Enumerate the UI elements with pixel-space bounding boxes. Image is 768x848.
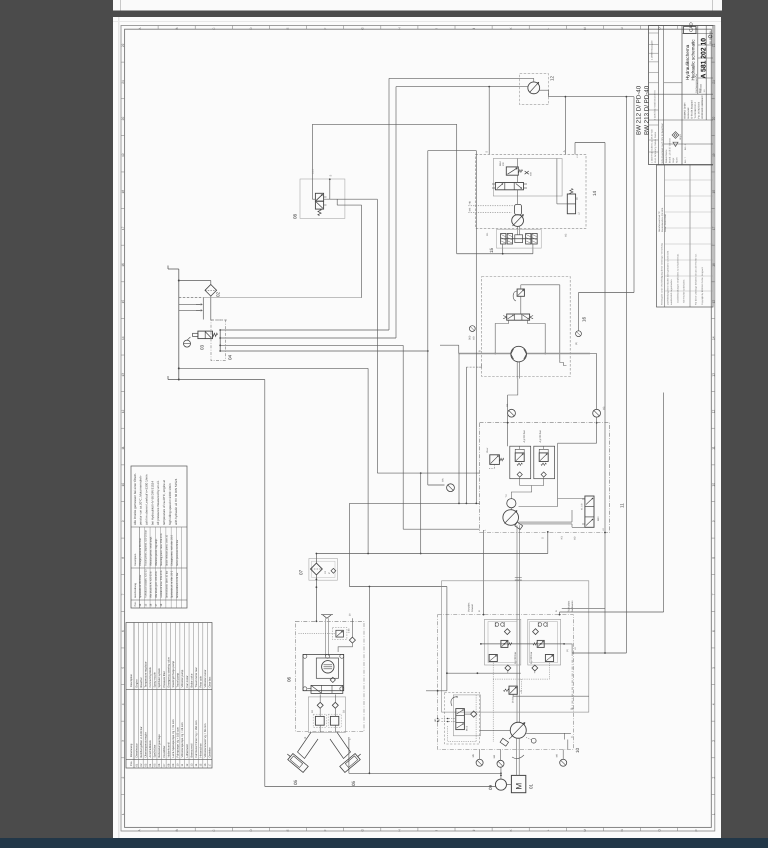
title block revision strip <box>658 26 660 165</box>
svg-text:b 2105 Änd. Ventil 03.02.97: b 2105 Änd. Ventil 03.02.97 Kr <box>654 90 657 120</box>
pressure filter 07 <box>309 559 338 581</box>
svg-text:5: 5 <box>711 667 715 669</box>
svg-text:Fan motor: Fan motor <box>186 675 189 687</box>
svg-text:Rear axle: Rear axle <box>200 676 203 688</box>
block 11 cartridge valve B <box>534 446 555 479</box>
breather filter 02 <box>179 280 211 282</box>
solenoid pilot dotted lines <box>492 662 494 743</box>
svg-text:Fax 06742/3090: Fax 06742/3090 <box>698 101 701 118</box>
svg-text:05: 05 <box>351 780 356 786</box>
svg-text:I: I <box>435 830 439 831</box>
svg-text:Sprinkler system: Sprinkler system <box>158 667 161 687</box>
wire suction to pump 11 <box>316 553 547 555</box>
approval block left of title block <box>657 165 714 307</box>
svg-text:20: 20 <box>121 117 125 121</box>
svg-text:Lenk-Speisepumpe Vg = 19 ccm: Lenk-Speisepumpe Vg = 19 ccm <box>172 718 175 757</box>
svg-text:Hydraulikschema: Hydraulikschema <box>685 44 690 80</box>
svg-text:T.C: T.C <box>505 494 508 498</box>
svg-text:13: 13 <box>711 373 715 377</box>
svg-text:12: 12 <box>121 409 125 413</box>
pump 16 shaft to right gauge wire <box>590 353 597 355</box>
tank line from steering valve return <box>203 297 361 299</box>
unit 06 water tank <box>303 654 344 690</box>
pump 16 drain port dashed <box>466 366 478 368</box>
svg-text:Vibrationspumpe Vg = 28 ccm: Vibrationspumpe Vg = 28 ccm <box>181 721 184 757</box>
wire bus 2 to pump 14 suction <box>220 337 396 339</box>
svg-text:Speisedruck m.Vibr. 25-2: Speisedruck m.Vibr. 25-2 <box>171 570 174 598</box>
svg-text:8: 8 <box>121 557 125 559</box>
svg-text:BOMAG GmbH: BOMAG GmbH <box>684 102 687 118</box>
frame ruler ticks and grid letters <box>121 61 125 63</box>
svg-text:09: 09 <box>488 784 493 790</box>
svg-text:A p=80 bar: A p=80 bar <box>539 430 542 442</box>
svg-text:17: 17 <box>711 226 715 230</box>
block 11 main pump circle <box>503 510 519 526</box>
svg-text:(2): (2) <box>575 342 578 345</box>
title block inner grid <box>663 26 665 165</box>
svg-text:Vibrationsmotor Vg = 56 ccm: Vibrationsmotor Vg = 56 ccm <box>204 723 207 758</box>
svg-text:19: 19 <box>121 153 125 157</box>
svg-text:10: 10 <box>711 483 715 487</box>
travel pump 14 outer box <box>476 154 586 228</box>
svg-text:Connecting block: Connecting block <box>149 667 152 688</box>
svg-text:backwards: backwards <box>571 600 574 612</box>
svg-text:L1.1: L1.1 <box>312 169 315 174</box>
wire bus 1 to fan motor <box>220 329 389 331</box>
unit 06 water pump <box>316 658 338 678</box>
wire bus 3 to pump block 11 <box>220 344 403 346</box>
svg-text:with hydraulic oil HV 68 DIN 5: with hydraulic oil HV 68 DIN 51524 <box>174 478 178 525</box>
svg-text:(1): (1) <box>566 649 569 652</box>
solenoid pilot dotted into servo <box>475 695 477 741</box>
svg-text:MS: MS <box>468 207 471 211</box>
svg-text:Notlenkventil: Notlenkventil <box>167 742 170 758</box>
wire fan motor return <box>540 89 549 91</box>
svg-text:bei Hydrauliköl HV 68 DIN 515: bei Hydrauliköl HV 68 DIN 51524 <box>150 481 154 525</box>
svg-text:Description: Description <box>134 553 137 566</box>
title block CAD logo <box>684 27 697 34</box>
svg-text:a 1988 Erstausgabe: a 1988 Erstausgabe <box>651 40 654 60</box>
axle 15 <box>497 229 542 248</box>
svg-text:S: S <box>542 537 545 539</box>
svg-text:Urspr.: Urspr. <box>679 134 682 140</box>
svg-text:7: 7 <box>711 593 715 595</box>
svg-text:Ers. d.: Ers. d. <box>684 143 687 150</box>
svg-text:B: B <box>175 829 179 831</box>
svg-text:Gepr.: Gepr. <box>672 157 675 163</box>
svg-text:B: B <box>175 28 179 30</box>
svg-text:#1 0.8: #1 0.8 <box>581 503 584 510</box>
pump 16 drain <box>516 362 518 379</box>
svg-text:L: L <box>546 27 550 29</box>
svg-text:07: 07 <box>299 569 304 575</box>
pump block 11 boundary <box>480 423 610 533</box>
unit 06 relief valve <box>336 630 344 637</box>
svg-text:Beschreibung: Beschreibung <box>134 582 137 598</box>
wire 08 supply <box>311 124 313 199</box>
svg-text:6: 6 <box>711 630 715 632</box>
svg-text:Travel press. depend. 420-20 b: Travel press. depend. 420-20 bar <box>144 530 147 566</box>
vibration drum shaft line <box>459 353 590 355</box>
svg-text:Engine: Engine <box>135 679 138 688</box>
svg-text:Bremslösedr. über 10 bar: Bremslösedr. über 10 bar <box>165 570 168 598</box>
pump 14 main pump circle <box>512 215 524 227</box>
svg-text:Fahrpumpe Vg = 105 ccm: Fahrpumpe Vg = 105 ccm <box>177 726 180 757</box>
page <box>113 17 721 839</box>
svg-text:MB: MB <box>472 336 475 340</box>
sprinkler unit 06 boundary <box>296 621 365 731</box>
svg-text:F: F <box>323 829 327 831</box>
svg-text:2: 2 <box>711 776 715 778</box>
svg-text:B: B <box>479 350 482 352</box>
svg-text:15: 15 <box>711 300 715 304</box>
svg-text:Norm: Norm <box>676 157 679 163</box>
svg-text:Hinterachse: Hinterachse <box>200 743 203 758</box>
suction lines to tank <box>179 297 204 299</box>
svg-text:21: 21 <box>121 80 125 84</box>
travel pump 10 pilot dashes <box>445 693 480 745</box>
pump 16 left port <box>440 344 459 346</box>
wire filter feed <box>348 503 350 586</box>
relief 26bar outlet wire <box>513 694 589 696</box>
wire bus 4 to gauge <box>220 350 428 352</box>
svg-text:Berieselungsanlage: Berieselungsanlage <box>158 734 161 758</box>
tank suction wire to filter <box>179 367 368 369</box>
svg-text:Emergency steering valve: Emergency steering valve <box>167 657 170 688</box>
svg-text:Travel motor rear: Travel motor rear <box>195 667 198 687</box>
svg-text:Servo pressure 6-25 bar: Servo pressure 6-25 bar <box>176 540 179 566</box>
svg-text:CAD: CAD <box>689 22 694 32</box>
svg-text:16: 16 <box>582 316 587 322</box>
travel pump 10 feedback circle <box>526 738 532 740</box>
svg-text:c 2340 Hydr.Schema 12.05.97: c 2340 Hydr.Schema 12.05.97 Sch <box>651 128 654 163</box>
svg-text:22: 22 <box>121 43 125 47</box>
svg-text:11: 11 <box>711 446 715 450</box>
svg-text:BOPPARD GERMANY: BOPPARD GERMANY <box>701 95 704 119</box>
pump 14 charge pump <box>515 204 522 214</box>
svg-text:All pressures measured by an o: All pressures measured by an oil- <box>156 480 160 525</box>
svg-text:05: 05 <box>293 779 298 785</box>
pump 16 control valve <box>507 314 530 320</box>
travel pump 10 main circle <box>510 722 526 738</box>
svg-text:7: 7 <box>121 593 125 595</box>
svg-text:Vibration pump: Vibration pump <box>181 669 184 687</box>
svg-text:temperature of ca.20°C, engine: temperature of ca.20°C, engine at <box>162 480 166 525</box>
servo to pump wire <box>480 730 511 732</box>
pump 14 A-port wire <box>565 96 567 98</box>
block 11 charge pump circle <box>507 499 516 508</box>
tank rail <box>178 269 180 380</box>
svg-text:000: 000 <box>469 335 472 340</box>
svg-text:Benennung: Benennung <box>130 743 133 757</box>
block 11 shaft double line <box>516 525 518 722</box>
svg-text:(.): (.) <box>520 690 523 692</box>
svg-text:14: 14 <box>711 336 715 340</box>
port A and B dots <box>483 614 485 616</box>
svg-text:A p=80 bar: A p=80 bar <box>523 430 526 442</box>
spray nozzle 05 left <box>298 732 319 758</box>
svg-text:Abnahmevermerk TP: Abnahmevermerk TP <box>658 211 661 232</box>
svg-text:4: 4 <box>121 703 125 705</box>
gauges below pump 10 <box>476 759 483 766</box>
pump 14 orifice symbol <box>525 171 529 174</box>
block 11 pressure reducing valve <box>490 455 500 465</box>
parts list table <box>126 623 212 769</box>
svg-text:BW 213 D/ PD-40: BW 213 D/ PD-40 <box>644 85 651 135</box>
pump 14 internal wires <box>556 159 558 204</box>
svg-text:01: 01 <box>529 783 534 789</box>
svg-text:Brake valve: Brake valve <box>190 673 193 687</box>
pressure notes table <box>131 466 187 608</box>
pump 16 relief top wire <box>520 285 522 289</box>
svg-text:10: 10 <box>575 747 580 753</box>
svg-text:11: 11 <box>620 503 625 508</box>
pump 14 control valve <box>495 183 523 190</box>
pump 16 valve side wires <box>495 320 508 353</box>
svg-text:Steering/Charge pump: Steering/Charge pump <box>172 660 175 687</box>
travel pump 10 boundary <box>438 615 574 750</box>
svg-text:Zeichnungsnummer: Zeichnungsnummer <box>695 73 698 93</box>
engine 01 <box>511 775 525 792</box>
svg-text:Pressure filter: Pressure filter <box>163 671 166 687</box>
svg-text:10: 10 <box>121 483 125 487</box>
unit 06 filler breather <box>322 615 331 619</box>
pump 14 L1 right wire to block 11 L2 <box>574 143 576 155</box>
tank return wire lower <box>179 379 265 381</box>
pump 16 motor circle <box>511 346 527 362</box>
svg-text:Lenkdruck max. 205-10 b: Lenkdruck max. 205-10 b <box>160 570 163 598</box>
svg-text:B: B <box>304 737 307 739</box>
svg-text:Druckfilter: Druckfilter <box>163 745 166 757</box>
wire 08 output 1 <box>324 198 378 200</box>
wire emergency steering tie-in to L1 <box>428 150 477 152</box>
svg-text:Zuwiderhandlungen verpflichten: Zuwiderhandlungen verpflichten zu Schade… <box>677 253 680 303</box>
svg-text:08: 08 <box>293 213 298 219</box>
svg-text:Rexr.: Rexr. <box>486 447 489 453</box>
svg-text:21: 21 <box>711 80 715 84</box>
unit 06 check valve <box>351 618 353 637</box>
wire return bundle into block 11 <box>349 502 479 504</box>
svg-text:12: 12 <box>550 75 555 81</box>
travel pump 10 servo valve <box>453 695 480 736</box>
vibration pump 16 box <box>482 277 571 377</box>
brake valve assembly right <box>528 619 561 665</box>
svg-text:ausdrücklich zugestanden.: ausdrücklich zugestanden. <box>670 279 673 305</box>
pump 16 left gauge <box>469 326 475 332</box>
svg-text:14: 14 <box>121 336 125 340</box>
svg-text:M: M <box>515 783 524 790</box>
connecting block 04 <box>211 320 225 361</box>
block 11 gauge wire to servo feed <box>558 442 597 444</box>
svg-text:forward: forward <box>471 603 474 612</box>
svg-text:Für diese Unterlage behalten w: Für diese Unterlage behalten wir uns all… <box>695 253 698 305</box>
viewer bottom bar <box>0 838 768 848</box>
svg-text:0.5b: 0.5b <box>348 628 351 633</box>
svg-text:E: E <box>286 829 290 831</box>
pump 14 pilot lines <box>468 205 514 207</box>
unit 06 right return line <box>368 587 370 774</box>
pressure table grid <box>139 527 141 608</box>
pump 16 relief valve <box>517 289 524 296</box>
block 11 cartridge valve A <box>510 446 531 479</box>
svg-text:Charge pressure 28-2 bar: Charge pressure 28-2 bar <box>139 538 142 566</box>
gauge MA near block 11 <box>447 484 455 492</box>
svg-text:Charge press. with vibr. 25-2: Charge press. with vibr. 25-2 <box>171 534 174 566</box>
svg-text:Datum Name Blatt: Datum Name Blatt <box>664 214 667 232</box>
svg-text:1: 1 <box>711 813 715 815</box>
svg-text:S: S <box>486 151 489 153</box>
brake valve assembly left <box>485 619 521 665</box>
svg-text:2: 2 <box>121 776 125 778</box>
drawing frame outer border <box>121 26 715 832</box>
svg-text:Zust. Änderung Datum Name: Zust. Änderung Datum Name <box>654 131 657 163</box>
unit 06 nozzle filter block <box>308 697 345 732</box>
test gauge MB4 <box>593 409 601 417</box>
svg-text:Alle Drücke gemessen bei einer: Alle Drücke gemessen bei einer Öltem- <box>133 473 137 525</box>
svg-text:18: 18 <box>121 190 125 194</box>
svg-text:HD: HD <box>561 536 564 540</box>
svg-text:3: 3 <box>711 740 715 742</box>
svg-text:Übertemperaturregler: Übertemperaturregler <box>143 732 147 757</box>
svg-text:3: 3 <box>121 740 125 742</box>
svg-text:Speisedruck 28-2 bar: Speisedruck 28-2 bar <box>139 575 142 598</box>
svg-text:Weitergabe sowie Vervielfältig: Weitergabe sowie Vervielfältigung dieser… <box>660 242 663 305</box>
drawing frame inner border <box>125 29 712 827</box>
svg-text:Copyright by BOMAG GmbH, Boppa: Copyright by BOMAG GmbH, Boppard <box>701 267 704 305</box>
svg-text:E: E <box>286 28 290 30</box>
spray nozzle 05 right <box>330 732 351 758</box>
travel pump 14 inner box <box>493 159 562 197</box>
svg-text:1: 1 <box>121 813 125 815</box>
charge pump 09 <box>495 779 506 790</box>
svg-text:8: 8 <box>711 557 715 559</box>
unit 06 electric motor <box>311 685 343 693</box>
svg-text:15: 15 <box>489 247 494 253</box>
svg-text:Fahrdruck lastabh. 420-20: Fahrdruck lastabh. 420-20 <box>144 569 147 598</box>
svg-text:Brake release press. over 10: Brake release press. over 10 <box>165 534 168 566</box>
block 11 L-port wire to brake block <box>483 530 485 615</box>
svg-text:A p=80 bar: A p=80 bar <box>514 652 517 664</box>
svg-text:Sprühdüse: Sprühdüse <box>154 744 157 757</box>
previous page bottom strip <box>113 0 722 11</box>
svg-text:Travel pump: Travel pump <box>177 672 180 687</box>
svg-text:Datum Name: Datum Name <box>665 149 668 163</box>
svg-text:15: 15 <box>121 300 125 304</box>
svg-text:Vibration motor: Vibration motor <box>204 670 207 688</box>
svg-text:I: I <box>435 28 439 29</box>
svg-text:9: 9 <box>711 520 715 522</box>
svg-text:Description: Description <box>130 673 133 687</box>
svg-text:18: 18 <box>711 190 715 194</box>
svg-text:Hydraulic schematic: Hydraulic schematic <box>691 39 696 81</box>
svg-text:17: 17 <box>121 226 125 230</box>
svg-text:26 bar: 26 bar <box>512 696 515 703</box>
svg-text:Vibration press. small ampl.: Vibration press. small ampl. <box>150 536 153 566</box>
block 11 servo valve <box>585 496 594 527</box>
block 11 internal wires <box>510 508 512 510</box>
svg-text:Anschlußblock: Anschlußblock <box>149 740 152 758</box>
fan motor return riser <box>626 96 628 98</box>
svg-text:M: M <box>583 829 587 832</box>
svg-text:Tel.06742/100-0: Tel.06742/100-0 <box>694 101 697 118</box>
svg-text:Bearb. 12.05.97 Scherer: Bearb. 12.05.97 Scherer <box>669 138 672 163</box>
svg-text:Fahrmotor hinten Vg = 160 ccm: Fahrmotor hinten Vg = 160 ccm <box>195 720 198 758</box>
svg-text:M: M <box>583 27 587 30</box>
svg-text:P: P <box>694 829 698 831</box>
brake valve diamond stubs <box>507 671 509 673</box>
svg-text:14: 14 <box>592 190 597 196</box>
svg-text:Alle Rechte vorbehalten.: Alle Rechte vorbehalten. <box>683 279 686 303</box>
svg-text:Temperature regulator: Temperature regulator <box>144 661 147 687</box>
svg-text:und Mitteilung ihres Inhaltes: und Mitteilung ihres Inhaltes nicht gest… <box>667 250 670 305</box>
svg-text:A p=80 bar: A p=80 bar <box>530 652 533 664</box>
wire 08 top run <box>312 123 456 125</box>
filter main wire <box>315 554 317 564</box>
title block outline <box>649 26 714 165</box>
test gauge MA4 <box>508 409 516 417</box>
svg-text:HD: HD <box>468 201 471 205</box>
svg-text:Pos.: Pos. <box>134 601 137 606</box>
svg-text:Ers. f.: Ers. f. <box>684 157 687 163</box>
wire pump top feed <box>377 472 479 474</box>
svg-text:zahl im oberen Leerlauf n=2300: zahl im oberen Leerlauf n=2300 1/min <box>145 474 149 525</box>
svg-text:M00: M00 <box>597 516 600 521</box>
svg-text:(3): (3) <box>576 197 579 200</box>
svg-text:peratur von ca.20°C, Motornenn: peratur von ca.20°C, Motornenndreh- <box>139 475 143 525</box>
pump 14 relief valve <box>506 167 518 175</box>
svg-text:high idling speed n=2300 1/mi: high idling speed n=2300 1/min <box>168 483 172 525</box>
svg-text:5: 5 <box>121 667 125 669</box>
svg-text:9: 9 <box>121 520 125 522</box>
temperature regulator 03 <box>198 331 213 339</box>
pump 16 relief to valve wire <box>520 296 522 314</box>
svg-text:Vibr.druck kl.A. 420-20 b: Vibr.druck kl.A. 420-20 b <box>150 571 153 598</box>
svg-text:13: 13 <box>121 373 125 377</box>
svg-text:Dieselmotor: Dieselmotor <box>135 743 138 757</box>
travel pump 10 L1 port <box>526 732 565 734</box>
svg-text:6: 6 <box>121 630 125 632</box>
svg-text:Gear box: Gear box <box>209 676 212 688</box>
svg-text:M.02: M.02 <box>466 725 469 731</box>
svg-text:F: F <box>323 28 327 30</box>
block 11 cartridge drain wires <box>519 477 521 485</box>
wire from breather down <box>210 296 212 320</box>
shaft pump 10 to engine <box>516 738 518 775</box>
svg-text:Schutzvermerk nach DIN 34 beac: Schutzvermerk nach DIN 34 beachten <box>661 122 664 163</box>
svg-text:06: 06 <box>287 676 292 682</box>
title block projection symbol diamond <box>672 132 679 139</box>
svg-text:L: L <box>546 829 550 831</box>
svg-text:Pos.: Pos. <box>130 761 133 766</box>
svg-text:Getriebe: Getriebe <box>209 747 212 758</box>
svg-text:Blatt: Blatt <box>699 88 702 93</box>
brake valve block outer solid box <box>442 581 589 712</box>
svg-text:BW 212 D/ PD-40: BW 212 D/ PD-40 <box>636 85 643 135</box>
svg-text:Vibration press. big ampl.: Vibration press. big ampl. <box>155 538 158 566</box>
svg-text:S: S <box>330 175 333 177</box>
svg-text:MA: MA <box>442 478 445 482</box>
wire port A to right riser <box>559 612 561 615</box>
svg-text:16: 16 <box>711 263 715 267</box>
pump 14 flushing valve <box>567 194 575 214</box>
svg-text:Belüftungsfilter +/-0.35 bar: Belüftungsfilter +/-0.35 bar <box>140 726 143 757</box>
small relief valve 26bar <box>509 686 517 694</box>
svg-text:HD: HD <box>434 718 437 722</box>
svg-text:Lüftermotor: Lüftermotor <box>186 744 189 758</box>
wire 08 output 2 <box>336 199 338 205</box>
svg-text:Vibr.druck gr.A. 420-20 b: Vibr.druck gr.A. 420-20 b <box>155 571 158 598</box>
svg-text:Werksabnahme QS 9001: Werksabnahme QS 9001 <box>661 207 664 232</box>
